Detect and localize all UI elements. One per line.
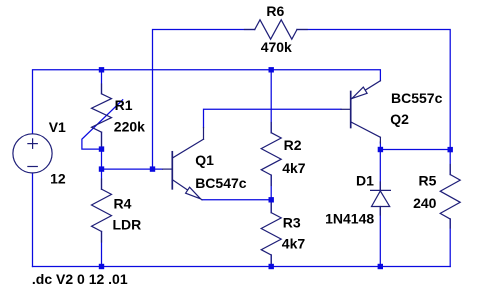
wire V+ rail from V1 top to Q2 emitter corner <box>33 70 381 134</box>
svg-text:R3: R3 <box>283 214 301 230</box>
transistor Q2 <box>341 81 380 143</box>
wire R3 bottom lead <box>270 255 272 267</box>
wire V1 bottom to ground rail <box>32 173 34 267</box>
junction Q1 base node left <box>99 166 104 171</box>
resistor R2 <box>261 123 281 186</box>
svg-text:4k7: 4k7 <box>282 236 306 252</box>
junction Q2 collector output node <box>378 147 383 152</box>
svg-text:R1: R1 <box>115 97 133 113</box>
wire R4 bottom lead <box>101 232 103 267</box>
junction D1 anode at ground rail <box>378 264 383 269</box>
wire Q2 collector to output node <box>379 142 381 150</box>
svg-text:470k: 470k <box>261 39 292 55</box>
transistor Q1 <box>163 128 204 200</box>
wire R5 bottom lead <box>449 219 451 267</box>
svg-text:.dc V2 0 12 .01: .dc V2 0 12 .01 <box>32 271 128 287</box>
wire R1 top lead <box>101 70 103 94</box>
junction R3 bottom at ground rail <box>269 264 274 269</box>
svg-text:LDR: LDR <box>113 217 142 233</box>
wire R5 top lead <box>449 150 451 175</box>
svg-text:R2: R2 <box>284 137 302 153</box>
wire output node to R5 <box>380 149 450 151</box>
svg-text:D1: D1 <box>356 173 374 189</box>
junction R2 top at V+ rail <box>269 67 274 72</box>
diode D1 <box>371 182 391 215</box>
svg-text:240: 240 <box>413 195 437 211</box>
wire D1 cathode lead <box>379 150 381 191</box>
junction R1 top at V+ rail <box>99 67 104 72</box>
wire R1 bottom to base node <box>101 132 103 189</box>
junction feedback at Q1 base node <box>150 166 155 171</box>
resistor R5 <box>440 165 460 229</box>
svg-text:R5: R5 <box>419 173 437 189</box>
svg-text:4k7: 4k7 <box>282 160 306 176</box>
wire bottom ground rail <box>33 266 451 268</box>
junction output at right rail <box>448 147 453 152</box>
junction R1 wiper tap <box>99 146 104 151</box>
wire R2 top lead from V+ rail <box>270 70 272 133</box>
wire R1 wiper tap <box>82 100 123 149</box>
svg-text:220k: 220k <box>114 119 145 135</box>
wire D1 anode lead to ground <box>379 207 381 267</box>
svg-text:BC557c: BC557c <box>391 90 443 106</box>
svg-text:R6: R6 <box>266 3 284 19</box>
wire Q1 emitter to R2 R3 node <box>202 199 271 201</box>
junction R4 bottom at ground rail <box>99 264 104 269</box>
wire top feedback rail right of R6 <box>297 30 450 150</box>
svg-text:Q2: Q2 <box>390 111 409 127</box>
svg-text:BC547c: BC547c <box>195 175 247 191</box>
resistor R3 <box>261 203 281 266</box>
svg-text:1N4148: 1N4148 <box>325 211 374 227</box>
resistor R4 <box>92 179 112 242</box>
svg-text:V1: V1 <box>49 119 66 135</box>
svg-text:Q1: Q1 <box>195 152 214 168</box>
svg-text:R4: R4 <box>114 196 132 212</box>
wire R2 bottom to R3 top <box>270 175 272 213</box>
wire Q1 base <box>102 168 163 170</box>
resistor R6 <box>245 20 308 39</box>
junction Q1 emitter at R2 R3 node <box>269 197 274 202</box>
wire top feedback rail left of R6 <box>153 30 255 170</box>
wire Q1 collector to Q2 base <box>204 109 342 127</box>
voltage source V1 <box>13 134 52 173</box>
resistor R1 <box>92 84 112 146</box>
svg-text:12: 12 <box>50 170 66 186</box>
